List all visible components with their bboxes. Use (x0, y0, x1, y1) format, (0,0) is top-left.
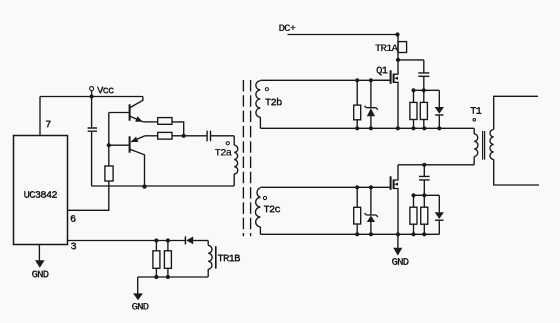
ground GND TR1B (133, 277, 143, 300)
diode D2 snubber upper (435, 90, 444, 128)
node PNP collector to rail (142, 184, 146, 188)
T1 secondary winding (490, 130, 494, 160)
svg-text:7: 7 (45, 119, 51, 131)
wire Q2 source rail (260, 233, 439, 235)
svg-text:Vcc: Vcc (97, 85, 114, 97)
wire cap to rail (91, 132, 93, 186)
wire cap to T2a (211, 135, 234, 137)
wire secondary top lead (494, 96, 538, 129)
wire Q1 gate line (260, 79, 390, 81)
wire top rail Vcc (40, 96, 143, 98)
svg-text:6: 6 (70, 214, 76, 226)
svg-text:GND: GND (392, 257, 409, 269)
ground GND under U1 (35, 245, 45, 268)
diode D3 snubber lower (435, 195, 444, 234)
transformer T2a primary winding (234, 136, 238, 186)
node R1/R2 junction (182, 134, 186, 138)
node bus dots (411, 88, 415, 92)
capacitor C3 snubber upper (418, 60, 429, 90)
node DC+ end dot (395, 32, 399, 36)
wire DC+ rail (288, 34, 398, 36)
node pin3 wire dots (154, 238, 158, 242)
node source rail dots lower (355, 232, 359, 236)
wire R1 left (143, 121, 158, 123)
resistor R7 gate resistor lower (354, 187, 361, 234)
Vcc terminal circle (90, 87, 94, 91)
node base junction (107, 143, 111, 147)
svg-text:TR1A: TR1A (375, 43, 399, 55)
svg-text:GND: GND (132, 301, 149, 313)
svg-text:T2b: T2b (265, 97, 282, 109)
T1 core (483, 131, 485, 160)
transformer T2b secondary winding (256, 81, 261, 129)
wire base chain vertical (108, 113, 110, 167)
svg-text:TR1B: TR1B (217, 253, 240, 265)
resistor R8 (410, 195, 417, 234)
node T2a polarity dot (226, 142, 229, 145)
wire pin3 (68, 240, 185, 242)
svg-text:3: 3 (70, 241, 76, 253)
capacitor C2 coupling (207, 131, 210, 142)
node gate dots lower (355, 185, 359, 189)
svg-text:UC3842: UC3842 (24, 190, 58, 202)
node gate dots (355, 78, 359, 82)
resistor R10 (153, 241, 160, 278)
wire Vcc stub (91, 91, 93, 97)
transistor NPN driver (upper, unlabeled) (109, 97, 143, 122)
transistor MOSFET (lower, unlabeled) (371, 165, 398, 235)
T1 primary winding (473, 128, 475, 134)
resistor R2 (158, 132, 172, 139)
node return dots (154, 275, 158, 279)
transformer T2c secondary winding (255, 188, 260, 234)
node Vcc junction (90, 95, 94, 99)
wire snubber bus upper (414, 89, 440, 91)
svg-text:GND: GND (32, 269, 49, 281)
node bus dots lower (411, 193, 415, 197)
transistor PNP driver (lower, unlabeled) (109, 136, 145, 186)
wire R2 right to cap (172, 135, 207, 137)
IC U1 UC3842 PWM controller (14, 136, 68, 245)
resistor R6 (420, 90, 427, 128)
wire drain node to snubber (398, 59, 424, 61)
node T1 polarity dot (473, 119, 476, 122)
wire Q2 gate line (260, 186, 371, 188)
wire snubber bus lower (414, 194, 440, 196)
node source rail dots (355, 126, 359, 130)
T2 transformer core dashed lines (243, 80, 250, 236)
transistor Q1 MOSFET (371, 60, 398, 128)
wire R2 left (145, 135, 158, 137)
transformer TR1B winding (208, 241, 216, 278)
wire TR1B return (138, 276, 209, 278)
wire Vcc down to cap (91, 98, 93, 128)
ground GND at Q2 source (393, 234, 402, 255)
node TR1A bottom dot (396, 58, 400, 62)
wire R3 to pin6 (68, 181, 109, 210)
diode Z1 zener upper (365, 80, 378, 128)
resistor R5 (410, 90, 417, 128)
node T2b polarity dot (265, 88, 268, 91)
capacitor C4 snubber lower (419, 165, 430, 196)
wire secondary bottom lead (494, 160, 539, 186)
resistor R4 gate resistor upper (354, 80, 361, 128)
svg-text:Q1: Q1 (376, 65, 388, 77)
svg-text:T2c: T2c (263, 204, 280, 216)
resistor R3 (105, 166, 113, 181)
diode D1 (185, 236, 208, 244)
capacitor C1 bypass (88, 128, 97, 131)
transformer T1 (474, 96, 539, 185)
svg-text:T2a: T2a (215, 147, 232, 159)
resistor R11 (164, 241, 171, 278)
wire Q1 source rail (260, 127, 474, 129)
wire driver return rail (92, 185, 235, 187)
node T2c polarity dot (263, 196, 266, 199)
svg-text:DC+: DC+ (279, 23, 296, 35)
wire R1 right to junction (172, 122, 184, 136)
resistor R9 (421, 195, 428, 234)
node drain rail dot (422, 163, 426, 167)
resistor R1 (158, 118, 172, 125)
diode Z2 zener lower (365, 187, 378, 234)
wire Q2 drain rail to T1 (398, 164, 474, 166)
wire pin7 vertical (39, 97, 41, 136)
transformer TR1A primary (current sense) (398, 35, 407, 60)
svg-text:T1: T1 (470, 106, 482, 118)
